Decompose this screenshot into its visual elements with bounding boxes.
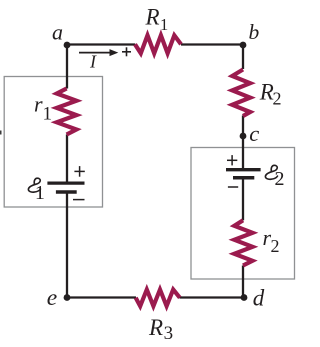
svg-text:2: 2 <box>275 168 285 190</box>
svg-text:e: e <box>47 285 57 311</box>
svg-text:R: R <box>148 315 163 340</box>
svg-text:b: b <box>249 20 260 44</box>
svg-text:a: a <box>52 20 63 45</box>
svg-text:1: 1 <box>43 104 53 125</box>
svg-text:1: 1 <box>160 15 168 34</box>
svg-text:1: 1 <box>35 182 45 204</box>
svg-text:2: 2 <box>273 89 282 109</box>
svg-text:c: c <box>249 121 259 146</box>
svg-text:I: I <box>89 51 97 71</box>
svg-text:R: R <box>145 5 160 30</box>
svg-text:d: d <box>253 285 265 310</box>
svg-text:2: 2 <box>271 236 280 256</box>
svg-text:3: 3 <box>164 323 174 344</box>
